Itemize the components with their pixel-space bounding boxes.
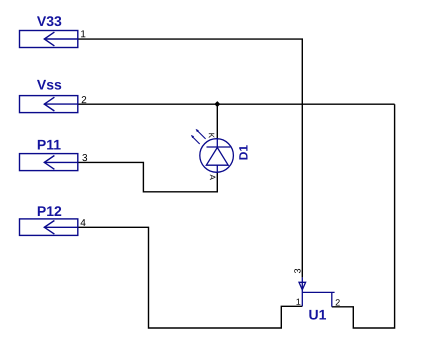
pin number 2 of port Vss — [82, 96, 87, 103]
wire P12 pin4 to U1 pin1 — [78, 227, 302, 328]
svg-text:P12: P12 — [37, 203, 62, 219]
port Vss — [20, 96, 79, 113]
pin number 3 of port P11 — [82, 154, 87, 161]
junction node on Vss at LED cathode — [214, 101, 220, 107]
port P11 — [20, 154, 79, 171]
LED D1 cathode bar — [207, 146, 231, 148]
LED pin name A — [210, 175, 216, 180]
port V33 — [20, 31, 79, 48]
wire LED cathode K up to Vss junction — [216, 104, 218, 139]
LED D1 triangle — [206, 148, 228, 166]
U1 body internal lead with arrowhead pin3 — [301, 277, 303, 306]
wire net V33 pin1 to U1 pin3 — [78, 39, 302, 277]
wire Vss right vertical down to U1 pin2 — [332, 104, 395, 328]
svg-text:P11: P11 — [37, 137, 61, 153]
LED D1 light arrow lower — [191, 135, 200, 144]
svg-text:Vss: Vss — [37, 76, 62, 92]
LED D1 circle — [200, 139, 234, 173]
U1 arrowhead — [299, 282, 306, 290]
svg-text:D1: D1 — [237, 145, 251, 161]
pin number 3 of U1 — [294, 269, 300, 273]
pin number 4 of port P12 — [81, 219, 86, 226]
LED D1 internal leads — [216, 139, 218, 172]
wire P11 pin3 to LED anode A — [78, 162, 217, 191]
wire net Vss horizontal — [78, 103, 395, 105]
pin number 1 of port V33 — [81, 30, 85, 37]
port P12 — [20, 219, 79, 236]
pin number 1 of U1 — [296, 299, 300, 305]
LED pin name K — [209, 133, 215, 138]
svg-text:V33: V33 — [37, 13, 62, 29]
svg-text:U1: U1 — [309, 306, 327, 322]
pin number 2 of U1 — [336, 299, 340, 305]
U1 body horizontal and pin2 drop — [302, 292, 334, 306]
LED D1 light arrow upper — [196, 129, 206, 139]
